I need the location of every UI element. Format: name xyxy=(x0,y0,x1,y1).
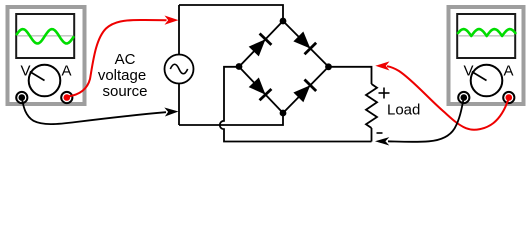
node top junction xyxy=(280,18,287,25)
meter M1 black terminal xyxy=(16,92,27,103)
wire: source left vertical xyxy=(178,5,180,125)
diode D4 (bottom-right branch) xyxy=(283,67,329,113)
meter M2 frame xyxy=(449,7,524,104)
probe arrowhead: right black xyxy=(375,137,389,145)
node bottom junction xyxy=(280,110,287,117)
meter M1 sine trace xyxy=(17,29,74,43)
svg-text:voltage: voltage xyxy=(98,67,146,84)
wire: right node to load xyxy=(329,67,372,84)
probe wire: right red (to + of load) xyxy=(387,66,509,129)
node right junction xyxy=(325,63,332,70)
diode D3 (left-bottom branch) xyxy=(239,67,283,113)
meter M2 black terminal xyxy=(458,92,469,103)
meter M2 (right oscilloscope/meter) xyxy=(449,7,524,104)
probe arrowhead: right red xyxy=(375,61,389,70)
probe arrowhead: left black xyxy=(164,108,178,117)
meter M2 needle xyxy=(472,72,487,81)
probe wire: right black (to - of load) xyxy=(388,99,464,142)
svg-text:A: A xyxy=(61,62,71,79)
meter M1 screen centerline xyxy=(17,35,73,37)
wire: left node to DC- rail (with hop over AC wire) xyxy=(220,67,372,142)
svg-text:A: A xyxy=(503,62,513,79)
wire: top AC wire xyxy=(179,5,283,21)
svg-text:V: V xyxy=(463,62,473,79)
diode D1 (left-top branch) xyxy=(239,21,283,67)
meter M1 dial xyxy=(29,65,61,97)
node left junction xyxy=(236,63,243,70)
meter M1 red terminal xyxy=(61,92,72,103)
svg-text:V: V xyxy=(20,62,30,79)
diode D2 (top-right branch) xyxy=(283,21,329,67)
probe wire: left red (to top of source) xyxy=(68,20,167,97)
meter M1 screen xyxy=(16,14,74,58)
svg-text:Load: Load xyxy=(387,102,420,119)
meter M2 screen centerline xyxy=(458,35,514,37)
meter M1 (left oscilloscope/meter) xyxy=(8,7,85,104)
probe arrowhead: left red xyxy=(165,16,179,25)
wire: bottom AC wire xyxy=(179,113,283,125)
meter M2 rectified trace xyxy=(458,29,515,36)
resistor R-load xyxy=(366,84,377,128)
meter M2 red terminal xyxy=(503,92,514,103)
meter M1 frame xyxy=(8,7,85,104)
label: - polarity xyxy=(377,132,383,134)
svg-text:source: source xyxy=(102,83,147,100)
label: + polarity xyxy=(379,88,390,99)
AC source V1 xyxy=(165,55,194,84)
meter M1 needle xyxy=(30,72,45,81)
probe wire: left black (to bottom of source) xyxy=(22,99,166,124)
svg-text:AC: AC xyxy=(115,51,136,68)
wire: load bottom lead xyxy=(371,128,373,142)
meter M2 dial xyxy=(471,65,503,97)
meter M2 screen xyxy=(457,14,515,58)
